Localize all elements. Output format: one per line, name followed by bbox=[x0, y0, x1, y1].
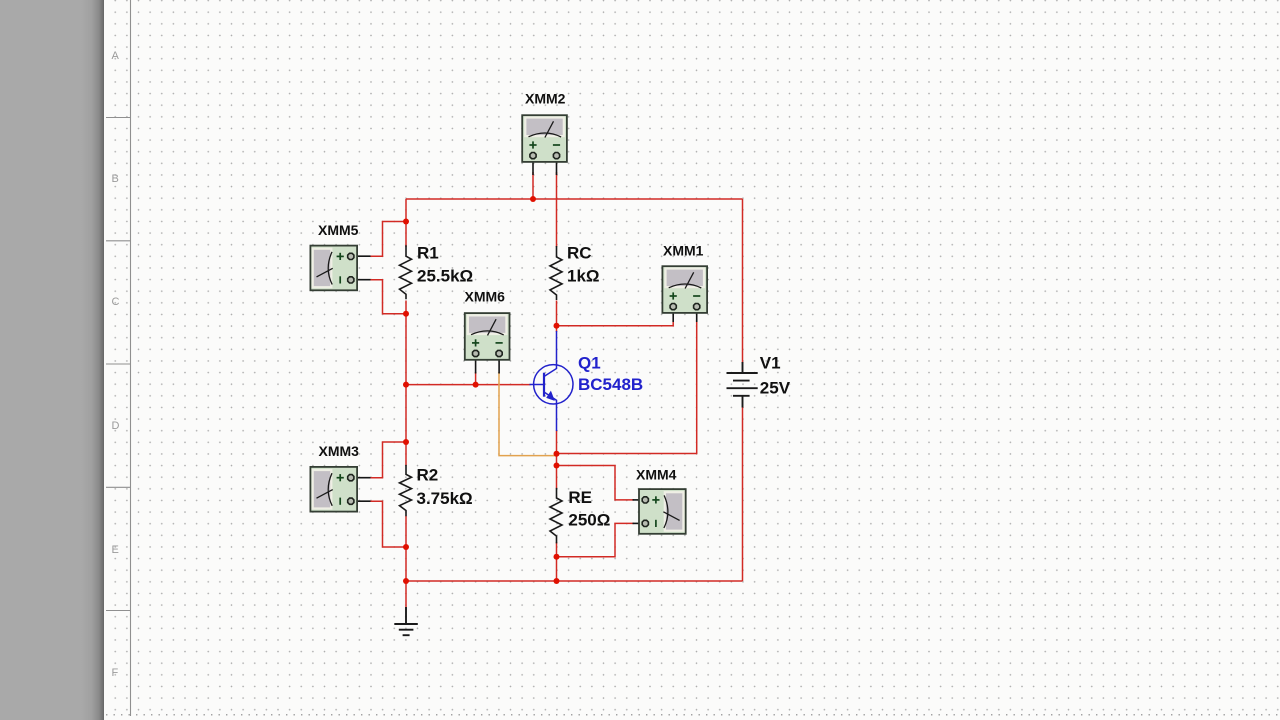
battery V1 bbox=[727, 362, 758, 408]
svg-text:A: A bbox=[112, 50, 120, 62]
wire: right rail lower (battery -) bbox=[742, 407, 744, 581]
pin stub: XMM6 - bbox=[498, 357, 500, 374]
wire: left rail upper (R1 top) bbox=[405, 199, 407, 247]
multimeter XMM5 bbox=[310, 246, 357, 291]
wire: XMM2 minus to RC top bbox=[556, 172, 558, 247]
multimeter XMM6 bbox=[465, 313, 510, 360]
wire: emitter down through nodes to RE top bbox=[556, 431, 558, 489]
junction dot: base node on left rail bbox=[403, 382, 409, 388]
pin stub: XMM1 - bbox=[696, 308, 698, 322]
wire: RC bottom to collector node bbox=[556, 301, 558, 333]
wire: left rail mid R1 bottom to R2 top bbox=[405, 301, 407, 466]
transistor Q1 bbox=[530, 331, 574, 431]
svg-text:XMM3: XMM3 bbox=[319, 443, 360, 459]
wire: XMM5 minus loop to R1 bottom node bbox=[369, 280, 406, 314]
pin stub: XMM1 + bbox=[672, 308, 674, 322]
pin stub: XMM3 - bbox=[348, 500, 371, 502]
wire: XMM5 plus loop to R1 top node bbox=[369, 222, 406, 257]
svg-text:R2: R2 bbox=[417, 465, 439, 484]
svg-text:XMM2: XMM2 bbox=[525, 91, 566, 107]
svg-text:D: D bbox=[112, 420, 120, 432]
pin stub: XMM2 - bbox=[556, 160, 558, 175]
wire: RE bottom to bottom rail bbox=[556, 542, 558, 581]
sheet row divider E bbox=[106, 486, 131, 488]
pin stub: XMM3 + bbox=[348, 477, 371, 479]
svg-text:RC: RC bbox=[567, 244, 592, 263]
wire: collector node to XMM1 plus bbox=[557, 320, 674, 326]
wire: XMM4 minus loop to RE bottom node bbox=[557, 523, 635, 556]
junction dot: bottom rail ground bbox=[403, 578, 409, 584]
junction dot: emitter node bbox=[554, 451, 560, 457]
multimeter XMM2 bbox=[522, 115, 567, 162]
svg-text:XMM5: XMM5 bbox=[318, 222, 359, 238]
multimeter XMM3 bbox=[310, 467, 357, 512]
pin stub: XMM5 - bbox=[348, 279, 371, 281]
wire: base from left rail to transistor bbox=[406, 384, 531, 386]
svg-text:R1: R1 bbox=[417, 244, 439, 263]
wire: XMM6 plus drop to base bbox=[475, 372, 477, 385]
pin stub: XMM4 - bbox=[633, 522, 649, 524]
junction dot: R2 top / XMM3+ bbox=[403, 439, 409, 445]
sheet row divider C bbox=[106, 240, 131, 242]
wire: XMM3 minus loop to R2 bottom node bbox=[369, 501, 406, 547]
svg-text:XMM4: XMM4 bbox=[636, 467, 677, 483]
sheet row divider B bbox=[106, 117, 131, 119]
multimeter XMM4 bbox=[639, 489, 686, 534]
wire: top rail V1+ to R1 top bbox=[406, 198, 743, 200]
svg-text:25V: 25V bbox=[760, 378, 791, 397]
resistor R2 bbox=[400, 465, 412, 516]
svg-text:F: F bbox=[112, 667, 119, 679]
junction dot: bottom rail RE bbox=[554, 578, 560, 584]
junction dot: R1 top / XMM5+ bbox=[403, 219, 409, 225]
ground bbox=[394, 607, 418, 635]
resistor R1 bbox=[400, 245, 412, 299]
sheet row divider D bbox=[106, 363, 131, 365]
wire: right rail upper (battery +) bbox=[742, 199, 744, 363]
svg-text:25.5kΩ: 25.5kΩ bbox=[417, 267, 473, 286]
svg-text:V1: V1 bbox=[760, 353, 781, 372]
junction dot: collector node bbox=[554, 323, 560, 329]
wire: XMM4 plus loop from RE top node bbox=[557, 466, 635, 500]
sheet row divider F bbox=[106, 610, 131, 612]
wire: ground drop bbox=[405, 581, 407, 610]
svg-text:C: C bbox=[112, 296, 120, 308]
wire: XMM2 plus to top rail bbox=[532, 172, 534, 199]
junction dot: RE bottom / XMM4- bbox=[554, 554, 560, 560]
svg-text:XMM6: XMM6 bbox=[465, 289, 506, 305]
wire: XMM3 plus loop to R2 top node bbox=[369, 442, 406, 478]
svg-text:BC548B: BC548B bbox=[578, 375, 643, 394]
resistor RC bbox=[550, 246, 562, 300]
svg-text:1kΩ: 1kΩ bbox=[567, 267, 600, 286]
sheet border column line bbox=[130, 0, 132, 716]
junction dot: R2 bottom / XMM3- bbox=[403, 544, 409, 550]
svg-text:3.75kΩ: 3.75kΩ bbox=[417, 489, 473, 508]
sheet bottom dotted border bbox=[106, 714, 1280, 716]
svg-text:E: E bbox=[112, 544, 119, 556]
pin stub: XMM2 + bbox=[532, 160, 534, 175]
wire: XMM6 minus orange to emitter node bbox=[499, 372, 557, 456]
pin stub: XMM4 + bbox=[633, 499, 649, 501]
wire: XMM1 minus down to emitter node bbox=[557, 320, 697, 454]
svg-text:250Ω: 250Ω bbox=[568, 511, 610, 530]
svg-text:XMM1: XMM1 bbox=[663, 243, 704, 259]
junction dot: RE top / XMM4+ bbox=[554, 463, 560, 469]
junction dot: XMM6+ on base wire bbox=[473, 382, 479, 388]
wire: left rail lower R2 bottom to bottom rail bbox=[405, 516, 407, 581]
junction dot: R1 bottom / XMM5- bbox=[403, 311, 409, 317]
pin stub: XMM5 + bbox=[348, 255, 371, 257]
svg-text:B: B bbox=[112, 173, 119, 185]
resistor RE bbox=[550, 488, 562, 544]
pin stub: XMM6 + bbox=[475, 357, 477, 374]
wire: bottom rail bbox=[406, 580, 743, 582]
svg-text:Q1: Q1 bbox=[578, 354, 601, 373]
junction dot: top rail XMM2+ bbox=[530, 196, 536, 202]
multimeter XMM1 bbox=[662, 266, 707, 313]
svg-text:RE: RE bbox=[568, 488, 592, 507]
